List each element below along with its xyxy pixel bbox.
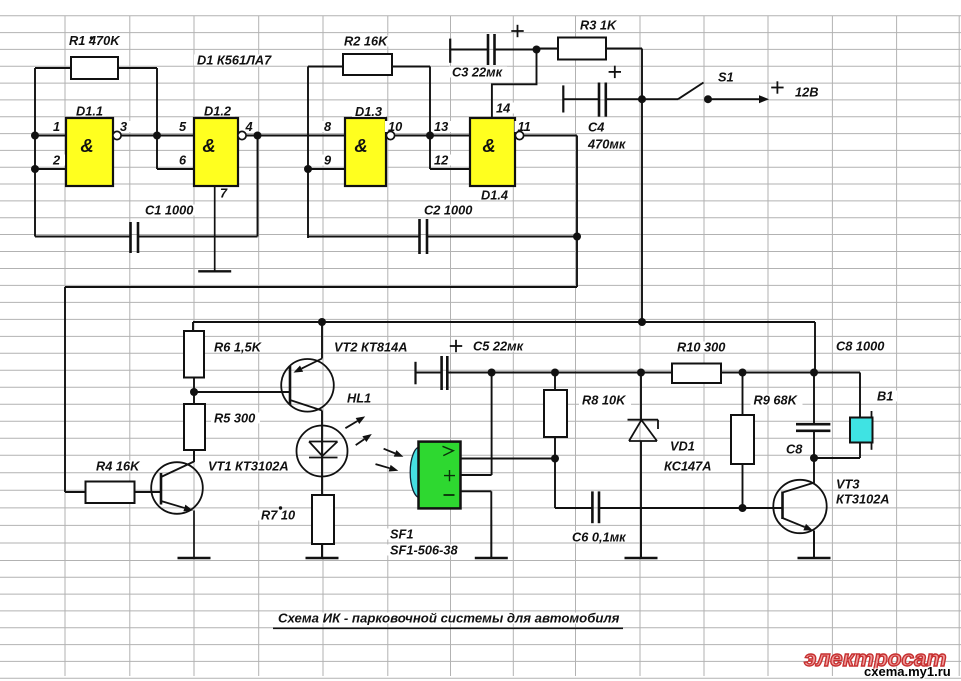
svg-text:S1: S1 [718, 70, 734, 85]
svg-text:470мк: 470мк [587, 137, 626, 152]
svg-text:5: 5 [179, 119, 187, 134]
svg-text:1: 1 [53, 119, 60, 134]
svg-text:VT3: VT3 [836, 477, 859, 492]
svg-text:D1 К561ЛА7: D1 К561ЛА7 [197, 53, 272, 68]
svg-text:R1 470K: R1 470K [69, 33, 121, 48]
svg-text:R4 16K: R4 16K [96, 459, 141, 474]
svg-text:2: 2 [52, 153, 60, 168]
svg-text:R9 68K: R9 68K [754, 393, 799, 408]
svg-text:R2 16K: R2 16K [344, 34, 389, 49]
svg-text:C5 22мк: C5 22мк [473, 339, 524, 354]
svg-text:VT2 КТ814А: VT2 КТ814А [334, 340, 407, 355]
svg-text:6: 6 [179, 153, 187, 168]
svg-text:7: 7 [220, 186, 228, 201]
svg-text:C8 1000: C8 1000 [836, 339, 884, 354]
svg-text:B1: B1 [877, 389, 893, 404]
svg-text:Схема ИК - парковочной системы: Схема ИК - парковочной системы для автом… [278, 611, 620, 626]
svg-text:HL1: HL1 [347, 391, 371, 406]
svg-text:D1.2: D1.2 [204, 103, 231, 118]
svg-text:КТ3102А: КТ3102А [836, 492, 890, 507]
svg-text:C8: C8 [786, 442, 803, 457]
svg-text:3: 3 [120, 119, 127, 134]
svg-text:12: 12 [434, 153, 448, 168]
svg-text:&: & [354, 135, 367, 156]
svg-text:D1.4: D1.4 [481, 188, 508, 203]
svg-text:D1.3: D1.3 [355, 104, 382, 119]
svg-text:12В: 12В [795, 85, 818, 100]
svg-text:R5 300: R5 300 [214, 411, 255, 426]
svg-text:R10 300: R10 300 [677, 340, 725, 355]
svg-text:R3 1K: R3 1K [580, 18, 618, 33]
svg-text:&: & [202, 135, 215, 156]
svg-text:D1.1: D1.1 [76, 103, 103, 118]
svg-text:R6 1,5K: R6 1,5K [214, 340, 263, 355]
svg-text:VD1: VD1 [670, 439, 695, 454]
svg-text:C3 22мк: C3 22мк [452, 65, 503, 80]
svg-text:14: 14 [496, 101, 510, 116]
svg-text:SF1: SF1 [390, 527, 413, 542]
svg-text:9: 9 [324, 153, 332, 168]
svg-text:&: & [482, 135, 495, 156]
svg-text:&: & [80, 135, 93, 156]
svg-text:13: 13 [434, 119, 448, 134]
svg-text:C2 1000: C2 1000 [424, 203, 472, 218]
svg-text:R8 10K: R8 10K [582, 393, 627, 408]
svg-text:SF1-506-38: SF1-506-38 [390, 543, 458, 558]
svg-text:VT1 КТ3102А: VT1 КТ3102А [208, 459, 289, 474]
svg-text:R7 10: R7 10 [261, 508, 295, 523]
svg-text:C4: C4 [588, 120, 604, 135]
svg-text:8: 8 [324, 119, 332, 134]
svg-text:C1 1000: C1 1000 [145, 203, 193, 218]
svg-text:C6 0,1мк: C6 0,1мк [572, 530, 626, 545]
svg-text:4: 4 [245, 119, 253, 134]
svg-text:КС147А: КС147А [664, 459, 712, 474]
